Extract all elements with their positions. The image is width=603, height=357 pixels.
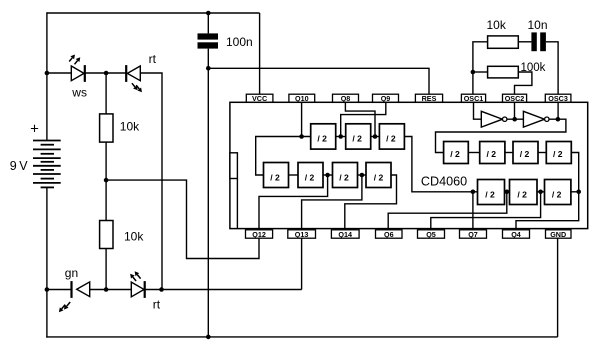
- wire Q13 tap: [302, 175, 362, 230]
- resistor R1 10k: [100, 114, 113, 142]
- pin Q7: [460, 230, 487, 238]
- node junction B3 B4: [360, 173, 365, 178]
- svg-text:rt: rt: [149, 52, 157, 66]
- wire Q10 stub: [301, 102, 303, 136]
- svg-text:Q9: Q9: [381, 94, 391, 103]
- svg-text:rt: rt: [153, 298, 161, 312]
- wire osc loop left: [473, 42, 488, 94]
- wire inv1 out: [507, 118, 524, 120]
- wire row1 right to drop: [140, 73, 162, 290]
- wire Q6 tap: [388, 192, 507, 230]
- pin Q4: [503, 230, 530, 238]
- LED rt1 red: [125, 65, 127, 82]
- wire R2 bottom lead: [105, 249, 107, 290]
- wire OSC3 stub: [557, 102, 559, 117]
- wire C2 to OSC3: [546, 42, 558, 94]
- capacitor C2 10n: [531, 32, 536, 51]
- wire 100k left lead: [473, 71, 488, 73]
- wire OSC2 stub: [514, 102, 516, 117]
- wire C4 out feedback: [571, 153, 578, 192]
- wire row2 left: [47, 289, 72, 291]
- svg-text:Q5: Q5: [426, 230, 436, 239]
- LED ws white: [71, 66, 84, 81]
- divider D3 /2: [545, 180, 571, 205]
- LED gn green: [70, 281, 72, 298]
- svg-text:9 V: 9 V: [10, 159, 28, 173]
- svg-text:10n: 10n: [528, 18, 548, 32]
- pin Q12: [246, 230, 273, 238]
- wire B3-B4: [358, 174, 367, 176]
- svg-text:Q10: Q10: [295, 94, 309, 103]
- wire R3 to C2: [518, 41, 531, 43]
- divider D1 /2: [478, 180, 505, 205]
- svg-text:/ 2: / 2: [339, 172, 349, 182]
- wire D1-D2: [505, 191, 510, 193]
- inverter U1a: [481, 111, 502, 127]
- svg-text:Q7: Q7: [468, 230, 478, 239]
- wire B4 out to Q14: [345, 175, 397, 230]
- divider B4 /2: [366, 163, 391, 188]
- node junction A1 A2: [338, 134, 343, 139]
- resistor R3 10k: [488, 36, 519, 48]
- svg-text:+: +: [30, 120, 39, 137]
- pin Q9: [373, 94, 399, 102]
- resistor R4 100k: [488, 66, 519, 78]
- pin Q8: [333, 94, 359, 102]
- pin Q14: [331, 230, 359, 238]
- wire 100k to OSC2: [515, 72, 532, 94]
- svg-text:Q13: Q13: [295, 230, 309, 239]
- wire Q5 tap: [431, 192, 541, 230]
- svg-text:RES: RES: [422, 94, 437, 103]
- node junction D1 D2: [505, 190, 510, 195]
- wire inv2 out feedback to C1: [436, 119, 566, 152]
- wire A3 out to rowD: [404, 137, 477, 192]
- svg-text:/ 2: / 2: [317, 134, 327, 144]
- node junction D3 feedback Q4: [576, 190, 581, 195]
- pin VCC: [246, 94, 273, 102]
- wire OSC1 stub: [474, 102, 482, 119]
- op-amp U1 CD4060 body: [230, 102, 588, 228]
- wire Q13 riser: [301, 238, 303, 289]
- node junction B2 B3: [325, 173, 330, 178]
- node junction row2 drop Q13: [159, 287, 164, 292]
- wire row1 mid: [85, 72, 126, 74]
- wire notch to bottom edge: [236, 179, 238, 229]
- node junction bottom rail cap branch: [206, 335, 211, 340]
- pin Q10: [289, 94, 315, 102]
- node junction OSC3 inv: [556, 117, 561, 122]
- svg-text:OSC3: OSC3: [548, 94, 568, 103]
- divider C1 /2: [444, 142, 469, 164]
- node junction ws rt1 R1: [104, 71, 109, 76]
- input buffer notch: [230, 153, 238, 179]
- svg-text:/ 2: / 2: [553, 149, 563, 159]
- svg-text:ws: ws: [71, 86, 87, 100]
- wire VCC drop: [259, 13, 261, 94]
- LED ws light arrows: [69, 58, 72, 62]
- node junction OSC2 inv: [512, 117, 517, 122]
- divider C2 /2: [480, 142, 505, 164]
- battery BT1 9V: [33, 140, 61, 142]
- divider B3 /2: [333, 163, 358, 188]
- wire left rail upper: [46, 12, 48, 140]
- inverter U1b: [523, 111, 544, 127]
- wire R1-R2 link: [105, 142, 107, 220]
- node junction R2 row2: [104, 287, 109, 292]
- svg-text:/ 2: / 2: [520, 149, 530, 159]
- pin OSC1: [461, 94, 485, 102]
- svg-text:Q12: Q12: [252, 230, 266, 239]
- svg-text:/ 2: / 2: [517, 189, 527, 199]
- wire cap bottom long: [207, 49, 209, 337]
- svg-text:GND: GND: [550, 230, 566, 239]
- svg-text:/ 2: / 2: [487, 149, 497, 159]
- LED rt2 light arrows: [137, 275, 140, 279]
- node junction osc1 100k: [471, 70, 476, 75]
- pin Q5: [418, 230, 445, 238]
- wire rowA input: [256, 137, 311, 176]
- divider A2 /2: [346, 124, 371, 149]
- pin GND: [546, 230, 572, 238]
- wire Q7 riser: [472, 192, 474, 230]
- wire RES line: [208, 68, 429, 94]
- wire C1-C2: [468, 152, 479, 154]
- svg-text:100n: 100n: [226, 35, 253, 49]
- wire A1-A2: [336, 136, 346, 138]
- svg-text:10k: 10k: [124, 230, 144, 244]
- svg-text:OSC1: OSC1: [464, 94, 484, 103]
- svg-text:VCC: VCC: [252, 94, 267, 103]
- wire Q8 path: [345, 102, 375, 136]
- divider B2 /2: [298, 163, 323, 188]
- svg-text:/ 2: / 2: [386, 134, 396, 144]
- svg-text:10k: 10k: [487, 18, 507, 32]
- wire GND stub: [557, 238, 559, 337]
- svg-text:/ 2: / 2: [450, 149, 460, 159]
- wire D2-D3: [537, 191, 545, 193]
- wire row2 right: [145, 289, 302, 291]
- wire top rail: [47, 12, 260, 14]
- wire row1 left: [47, 72, 71, 74]
- LED gn light arrows: [67, 302, 71, 306]
- svg-text:gn: gn: [65, 266, 78, 280]
- pin Q6: [376, 230, 403, 238]
- divider B1 /2: [264, 163, 289, 188]
- wire R1 top lead: [105, 73, 107, 114]
- node junction D2 D3: [538, 190, 543, 195]
- wire C2-C3: [505, 152, 513, 154]
- svg-text:CD4060: CD4060: [421, 175, 467, 189]
- wire A2-A3: [371, 136, 380, 138]
- wire B2-B3: [323, 174, 333, 176]
- LED rt2 red: [131, 282, 144, 297]
- wire D3 out: [571, 191, 579, 193]
- divider D2 /2: [510, 180, 538, 205]
- wire left rail lower: [46, 187, 48, 337]
- wire row2 mid: [90, 289, 132, 291]
- wire bottom rail: [46, 336, 557, 338]
- resistor R2 10k: [100, 221, 113, 249]
- divider C3 /2: [513, 142, 538, 164]
- svg-text:Q4: Q4: [511, 230, 521, 239]
- node junction cap RES line: [206, 66, 211, 71]
- wire Q4 tap: [516, 192, 579, 230]
- LED rt1 light arrows: [132, 83, 135, 87]
- wire Q12 link: [106, 180, 259, 258]
- svg-text:Q14: Q14: [338, 230, 352, 239]
- node junction A2 A3: [373, 134, 378, 139]
- node junction left rail row2: [45, 287, 50, 292]
- svg-text:Q6: Q6: [384, 230, 394, 239]
- node junction top rail cap: [206, 11, 211, 16]
- node junction R1 R2 Q12wire: [104, 178, 109, 183]
- svg-text:/ 2: / 2: [305, 172, 315, 182]
- divider A1 /2: [311, 124, 336, 149]
- svg-text:/ 2: / 2: [485, 189, 495, 199]
- svg-text:/ 2: / 2: [552, 189, 562, 199]
- divider C4 /2: [546, 142, 571, 164]
- node junction Q7 rowD: [471, 190, 476, 195]
- wire C3-C4: [538, 152, 546, 154]
- capacitor C1 100n: [198, 33, 219, 39]
- svg-text:/ 2: / 2: [374, 172, 384, 182]
- pin OSC3: [545, 94, 571, 102]
- wire Q9 path: [341, 102, 386, 136]
- pin RES: [415, 94, 442, 102]
- divider A3 /2: [379, 124, 404, 149]
- svg-text:/ 2: / 2: [270, 172, 280, 182]
- svg-text:Q8: Q8: [341, 94, 351, 103]
- svg-text:10k: 10k: [120, 119, 140, 133]
- wire cap top lead: [207, 13, 209, 33]
- pin OSC2: [503, 94, 527, 102]
- node junction Q10 rowA: [299, 134, 304, 139]
- wire Q12 tap: [259, 175, 328, 230]
- pin Q13: [288, 230, 316, 238]
- wire B1-B2: [289, 174, 299, 176]
- svg-text:/ 2: / 2: [352, 134, 362, 144]
- node junction left rail row1: [45, 71, 50, 76]
- svg-text:OSC2: OSC2: [505, 94, 525, 103]
